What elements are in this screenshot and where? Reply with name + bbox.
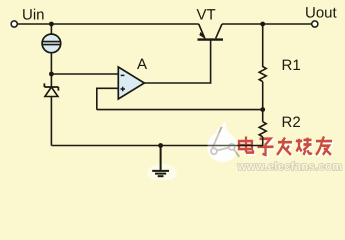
wire R1 top lead: [262, 24, 264, 67]
watermark text 电子发烧友 (white emboss layer): [239, 136, 334, 156]
wire op-amp + input: [97, 88, 119, 109]
wire top left (Uin to transistor emitter): [17, 23, 198, 25]
zener diode VD: [44, 74, 58, 146]
wire feedback rail: [97, 109, 263, 111]
node feedback junction: [260, 107, 265, 112]
ground: [152, 146, 169, 177]
wire current source top lead: [50, 24, 52, 34]
svg-text:A: A: [137, 56, 147, 73]
wire R2 bottom lead: [262, 137, 264, 146]
svg-text:R1: R1: [282, 57, 301, 74]
watermark logo circle: [207, 122, 237, 163]
svg-text:Uout: Uout: [305, 5, 338, 22]
transistor VT: [198, 24, 224, 40]
resistor R2: [259, 122, 266, 137]
node ground junction: [158, 143, 163, 148]
wire op-amp output to base: [144, 40, 210, 83]
terminal Uout: [312, 21, 318, 27]
svg-text:www.elecfans.com: www.elecfans.com: [237, 161, 343, 173]
resistor R1: [259, 67, 266, 82]
node reference (zener top): [49, 72, 54, 77]
node top of current source: [49, 22, 54, 27]
wire R2 top lead: [262, 110, 264, 122]
circuit layer: [11, 21, 318, 176]
svg-text:Uin: Uin: [22, 6, 45, 23]
wire to op-amp inverting input: [51, 73, 118, 75]
wire current source bottom lead: [50, 53, 52, 74]
op-amp A: [118, 67, 144, 99]
watermark logo link icon: [211, 127, 239, 157]
watermark translucent sheen over wire: [208, 132, 238, 162]
watermark text 电子发烧友 (red layer): [239, 136, 332, 154]
terminal Uin: [11, 21, 17, 27]
node R1 top: [260, 22, 265, 27]
current source I: [42, 34, 61, 53]
wire top right (collector to Uout): [222, 23, 312, 25]
wire bottom rail: [51, 145, 263, 147]
wire R1 bottom lead: [262, 82, 264, 110]
watermark ground glow: [147, 164, 177, 182]
svg-text:R2: R2: [282, 114, 301, 131]
svg-text:VT: VT: [197, 7, 216, 24]
